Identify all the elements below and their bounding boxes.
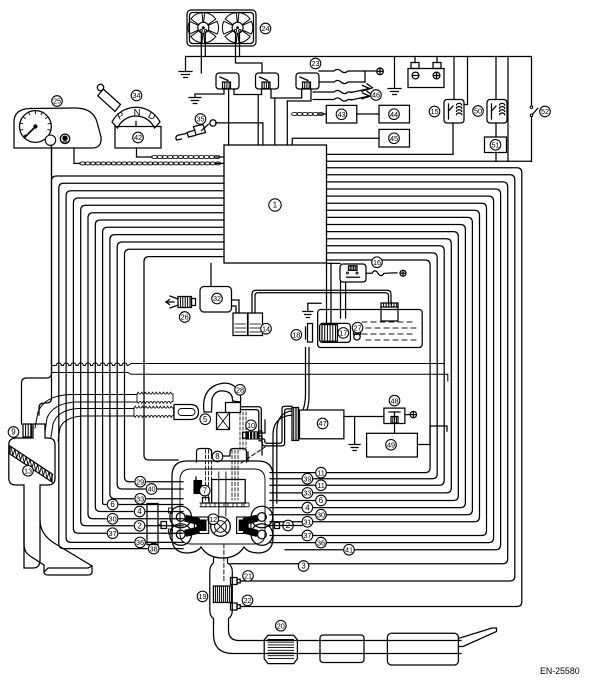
wire right loop 21 [242,175,515,581]
wire right loop 36 [270,196,494,542]
dashed link [241,447,265,463]
svg-text:10: 10 [247,421,255,430]
wire to engine 30 [119,518,183,520]
accelerator pedal 35 [210,120,216,126]
ignition coil BR [251,524,273,546]
air intake duct 28 [204,383,241,412]
wire to engine 2 [146,525,183,527]
wire right loop 11 [270,260,430,473]
wire pedal [216,122,263,124]
radiator fan assembly 24 [187,10,256,46]
tail pipe [458,628,496,647]
node 31 label [302,517,313,528]
fusible link wire [319,69,376,72]
node 46 label [371,90,382,101]
wire left loop 4 [81,205,224,526]
igniter ground [354,417,356,445]
svg-text:51: 51 [491,141,499,150]
svg-text:28: 28 [236,386,244,395]
wire right loop 11 [270,246,444,485]
ignition coil TL [170,506,192,528]
svg-text:6: 6 [319,496,324,505]
injector right [237,517,251,534]
svg-text:38: 38 [150,544,158,553]
wire 16 sensor [366,271,397,276]
svg-text:32: 32 [213,294,221,303]
distributor 12 [211,517,231,537]
node 8 label [212,451,223,462]
svg-text:9: 9 [11,428,16,437]
node 37 label [302,530,313,541]
hose 32 to canister [232,300,240,313]
tank vent canister [381,303,398,321]
wire to engine 4 [146,511,183,513]
svg-text:25: 25 [53,97,61,106]
svg-text:1: 1 [273,201,277,210]
wire to engine 38 [160,548,183,550]
wire right loop 41 [285,189,501,550]
svg-text:23: 23 [311,59,319,68]
wire 48 down [394,424,396,434]
node 5 label [200,414,211,425]
node 45 label [389,133,400,144]
wire speedometer down [51,145,53,176]
svg-text:43: 43 [337,110,345,119]
node 11 label [316,467,327,478]
fuse wire 3 [313,90,351,93]
svg-text:49: 49 [387,441,395,450]
node 37 label [107,528,118,539]
svg-text:EN-25580: EN-25580 [540,666,580,676]
svg-text:34: 34 [132,91,140,100]
intake air temp sensor 9 [23,424,32,437]
resistor block [147,504,158,545]
svg-text:12: 12 [209,515,217,524]
hose lower neck [51,409,134,438]
wire fan left to relay [200,33,202,73]
node 35 label [195,114,206,125]
wire relay50 to 51 [495,123,497,137]
node 3 label [298,561,309,572]
svg-text:39: 39 [303,474,311,483]
connector arrows 46 [351,84,373,93]
hose to throttle with wire hops [52,363,444,366]
node 18 label [291,330,302,341]
svg-text:20: 20 [277,621,285,630]
node 52 label [540,106,551,117]
wire to engine 6 [119,504,183,506]
node 23 label [310,58,321,69]
main relay 15 [444,100,464,124]
svg-text:19: 19 [198,592,206,601]
fuel pump relay 50 [487,100,507,124]
fuel pump 17 [320,323,351,342]
node 4 label [134,506,145,517]
svg-text:27: 27 [353,323,361,332]
warning lamp [60,134,69,143]
wire left loop 6 [95,220,224,512]
wire 16 down [340,282,342,318]
svg-text:2: 2 [137,522,141,531]
wire braid to ECU [286,101,288,145]
wire relay15 right pin [464,57,468,105]
motor 26 [178,297,192,308]
ECM unit 1 [224,145,327,263]
wire left loop 8 [110,235,224,499]
node 40 label [146,484,157,495]
engine block [172,461,273,558]
svg-text:35: 35 [196,115,204,124]
wire left loop 7 [103,227,224,504]
fuel level dashes [362,321,367,323]
svg-text:40: 40 [147,485,155,494]
svg-text:33: 33 [136,495,144,504]
svg-text:4: 4 [137,507,142,516]
wire cluster to air intake [22,176,225,420]
purge control solenoid 32 [200,287,232,313]
engine inner line [180,469,265,544]
wire battery terminals [414,57,416,63]
node 20 label [276,620,287,631]
wire 10 to igniter [262,406,292,443]
svg-text:52: 52 [541,107,549,116]
wire fan right 2 to bus [239,33,241,57]
wire right loop 39 [270,253,437,479]
svg-text:37: 37 [109,529,117,538]
wire ECU to 45 [292,138,379,145]
node 48 label [389,395,400,406]
harness cluster [73,148,75,163]
node 44 label [389,109,400,120]
pressure sources switching solenoid 16 [340,264,366,282]
wire relay15 bottom [452,123,454,154]
wire relay15 top [453,57,455,100]
node 36 label [135,537,146,548]
wire innermost left [144,257,224,460]
intake chamber [212,480,246,504]
injector left [194,517,208,534]
node 47 label [317,418,328,429]
svg-text:36: 36 [136,538,144,547]
svg-text:45: 45 [390,134,398,143]
wire right loop 6 [270,232,458,501]
wire right loop 3 [230,182,508,564]
wire 43 to 44 [357,113,379,115]
fuel damper 27 [354,334,360,340]
wire left loop 10 [125,249,225,481]
node 50 label [473,106,484,117]
wire 47 to 48 [344,416,384,418]
fuel rail rows [200,502,247,504]
svg-text:42: 42 [134,133,142,142]
bus A to relay 15 [327,153,454,155]
node 25 label [52,96,63,107]
engine right stub [275,523,280,529]
svg-text:13: 13 [24,467,32,476]
node 12 label [208,514,219,525]
node 32 label [212,293,223,304]
O2 sensor 21 [231,578,238,585]
hose upper neck [35,395,137,429]
wire left loop 1 [59,183,224,548]
O2 sensor 22 [231,603,238,610]
node 6 label [107,499,118,510]
wire right loop 30 [270,217,472,514]
node 15 label [429,106,440,117]
node 42 label [133,132,144,143]
intake runners [218,472,220,516]
resonator chamber [174,405,199,420]
tank ground [308,303,321,311]
fuse wire 4 [313,98,351,101]
wire left loop 2 [66,191,224,543]
node 28 label [235,385,246,396]
svg-text:31: 31 [303,518,311,527]
node 39 label [302,473,313,484]
wire ECU to 16 [327,262,341,264]
corrugated hose upper [137,392,173,394]
wire injector right [270,525,302,527]
ignition coil BL [170,524,192,546]
svg-text:48: 48 [390,396,398,405]
wire ECU to pump [326,263,328,323]
node 21 label [243,571,254,582]
throttle sensor 10 [243,432,247,438]
box 44 [379,105,410,123]
svg-text:37: 37 [303,531,311,540]
power bus wire [186,56,532,58]
node 30 label [107,514,118,525]
svg-text:4: 4 [305,503,310,512]
intake duct snorkel [24,520,92,575]
node 24 label [260,23,271,34]
svg-text:16: 16 [373,258,381,267]
box 42 [115,127,161,149]
svg-text:30: 30 [317,510,325,519]
exhaust front pipe [210,558,461,654]
svg-text:18: 18 [292,331,300,340]
node 22 label [242,595,253,606]
node 13 label [23,466,34,477]
node 33 label [135,494,146,505]
wire sensor 10 [260,420,266,433]
wire to air cleaner [39,148,52,415]
wire fan right to relay 2 [236,33,263,73]
svg-text:7: 7 [203,486,207,495]
muffler front [320,635,364,663]
node 16 label [372,257,383,268]
engine left nubs [169,508,173,513]
node 17 label [338,328,349,339]
wire duct to 10 [241,407,262,432]
ground G2 [195,89,224,97]
svg-text:11: 11 [317,481,325,490]
svg-text:11: 11 [317,468,325,477]
fuel pump bracket 18 [305,327,307,339]
wire 49 [417,426,430,445]
combination meter 25 [14,108,101,148]
svg-text:8: 8 [215,452,220,461]
node 10 label [246,420,257,431]
cam sensor 7 [194,481,202,494]
wire to engine 37 [119,532,183,534]
muffler rear [387,633,458,665]
wire left loop 9 [117,242,224,489]
wire pump to igniter [303,348,306,411]
node 7 label [200,485,211,496]
svg-text:22: 22 [243,596,251,605]
wire right loop 4 [270,225,465,508]
wire left loop 5 [88,213,224,519]
node 29 label [135,476,146,487]
wire right loop 33 [270,239,451,493]
fan relay B [256,73,279,89]
wire 32 top [210,264,212,287]
node 30 label [316,509,327,520]
svg-text:29: 29 [136,477,144,486]
svg-text:30: 30 [109,515,117,524]
svg-text:26: 26 [181,313,189,322]
wire fan left 2 to bus [204,33,206,57]
node 1 label [269,199,281,211]
svg-text:3: 3 [301,562,306,571]
engine left stub [161,522,167,529]
node 49 label [386,440,397,451]
wire 51 bottom [495,153,497,162]
wire igniter to coils [277,411,292,503]
node 26 label [179,312,190,323]
node 33 label [302,488,313,499]
wire relay50 top [495,57,497,100]
wire right loop 22 [242,168,522,607]
node 9 label [8,427,19,438]
svg-text:41: 41 [345,545,353,554]
air cleaner element [10,446,52,482]
svg-text:6: 6 [110,500,115,509]
svg-text:14: 14 [262,324,270,333]
node 14 label [261,323,272,334]
harness selector [136,148,138,157]
wire right branch [507,57,509,162]
ignition switch 52 [531,57,533,106]
throttle body 5 [217,413,230,430]
svg-text:36: 36 [317,538,325,547]
front catalytic converter 19 [213,586,231,603]
node 51 label [490,140,501,151]
engine wiring detail [223,544,225,582]
wire to engine 36 [147,541,183,543]
inhibitor switch 34 [97,84,103,90]
svg-text:47: 47 [319,419,327,428]
air cleaner 13 [9,424,55,568]
wire right loop 37 [270,203,487,535]
wire to engine 40 [158,488,183,490]
node 41 label [344,544,355,555]
node 4 label [302,502,313,513]
node 2 label [283,520,294,531]
svg-text:15: 15 [430,107,438,116]
node 34 label [131,90,142,101]
node 2 label [134,521,145,532]
svg-text:33: 33 [303,489,311,498]
node 36 label [316,537,327,548]
svg-text:21: 21 [244,572,252,581]
box 49 [367,433,418,457]
fuse wire 2 [319,80,365,83]
node 38 label [148,543,159,554]
battery ground [394,57,396,89]
fan relay C [296,73,319,89]
svg-text:44: 44 [390,110,398,119]
fuel tank [318,310,423,348]
battery [408,69,444,88]
wire relay outputs to ECU [228,89,230,145]
rear catalytic converter 20 [264,635,297,663]
branch hook B [430,426,447,431]
igniter 47 [300,410,344,439]
box 45 [379,129,410,147]
wire 42 stem [135,122,137,127]
node 6 label [316,495,327,506]
wire to engine 29 [147,481,183,483]
fan relay A [216,73,239,89]
svg-text:5: 5 [203,415,208,424]
intake manifold 8 [197,449,247,463]
svg-text:17: 17 [339,329,347,338]
svg-text:N: N [134,108,141,119]
node 11 label [316,480,327,491]
ground G1 [185,57,187,72]
svg-text:50: 50 [474,107,482,116]
svg-text:46: 46 [372,91,380,100]
wire to engine 33 [147,498,183,500]
corrugated hose lower [134,406,174,408]
svg-text:24: 24 [261,24,269,33]
box 51 [485,137,507,153]
knock sensor 48 [384,408,405,423]
hose canister to tank [252,290,391,313]
node 19 label [197,591,208,602]
diag connector 43 [292,113,298,116]
node 27 label [352,322,363,333]
canister 14 [233,313,248,336]
igniter connector [292,408,299,441]
ignition coil TR [251,506,273,528]
wire left loop 3 [73,198,224,533]
node 43 label [336,109,347,120]
wire right loop 31 [270,210,480,522]
bus B to switch [327,160,532,162]
